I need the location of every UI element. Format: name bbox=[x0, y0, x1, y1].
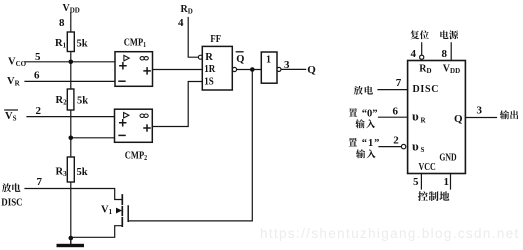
node Vco/R1/R2 junction bbox=[69, 60, 74, 65]
pin 4 number label (chip) bbox=[411, 48, 417, 60]
CMP1 amplifier triangle symbol bbox=[124, 55, 129, 61]
resistor R1 bbox=[67, 32, 74, 52]
wire VDD rail bbox=[70, 13, 72, 244]
svg-text:6: 6 bbox=[393, 106, 399, 118]
chip label DISC bbox=[413, 84, 440, 95]
svg-text:1: 1 bbox=[444, 176, 450, 188]
svg-text:5k: 5k bbox=[77, 96, 88, 107]
svg-text:7: 7 bbox=[396, 77, 402, 89]
pin 2 label bbox=[36, 105, 42, 117]
FF pin label R bbox=[205, 52, 213, 63]
svg-text:Q: Q bbox=[236, 54, 244, 65]
svg-text:υ: υ bbox=[412, 138, 419, 153]
svg-text:CMP2: CMP2 bbox=[125, 151, 147, 162]
resistor R1 labels bbox=[55, 38, 88, 50]
wire pin 6 (chip) bbox=[379, 116, 408, 118]
FF pin label 1S bbox=[204, 76, 214, 88]
comparator CMP2 box bbox=[115, 109, 153, 142]
wire Vco to CMP1 + input bbox=[25, 61, 115, 63]
svg-text:6: 6 bbox=[34, 69, 40, 81]
pin 5 number label (chip) bbox=[413, 176, 419, 188]
CMP2 infinity symbol bbox=[140, 114, 148, 117]
set-0 input label 输入 bbox=[355, 119, 375, 128]
svg-text:υ: υ bbox=[412, 109, 419, 124]
wire DISC pin7 to V1 drain bbox=[25, 189, 122, 200]
CMP1 output plus sign bbox=[144, 68, 150, 74]
chip label vS bbox=[412, 138, 425, 154]
wire R2-R3 node to CMP2 - input bbox=[71, 137, 115, 139]
svg-text:2: 2 bbox=[36, 105, 42, 117]
svg-text:8: 8 bbox=[442, 48, 448, 60]
CMP1 minus input sign bbox=[119, 80, 125, 82]
CMP2 amplifier triangle symbol bbox=[124, 113, 129, 119]
pin 3 label (left schematic) bbox=[284, 59, 290, 71]
svg-text:2: 2 bbox=[393, 135, 399, 147]
wire pin 5 (chip) bbox=[420, 174, 422, 190]
set-0 input label 置"0" bbox=[349, 108, 378, 119]
node R2/R3 junction bbox=[69, 136, 74, 141]
FF output Qbar label bbox=[236, 52, 244, 65]
transistor V1 channel segments bbox=[121, 195, 123, 226]
wire VR to CMP1 - input bbox=[25, 80, 115, 82]
buffer label 1 bbox=[266, 54, 271, 65]
output label 输出 bbox=[500, 110, 518, 119]
output label Q bbox=[307, 64, 316, 76]
svg-text:DISC: DISC bbox=[413, 84, 440, 95]
svg-text:Q: Q bbox=[307, 64, 316, 76]
flip-flop FF label bbox=[210, 35, 221, 46]
chip label vR bbox=[412, 109, 427, 125]
wire pin 4 (chip) bbox=[421, 43, 423, 55]
wire FF output to buffer bbox=[237, 69, 262, 71]
svg-text:7: 7 bbox=[37, 176, 43, 188]
wire pin 3 (chip) bbox=[465, 117, 496, 119]
DISC label (left) bbox=[1, 197, 22, 209]
input label Vs with overbar bbox=[5, 110, 18, 122]
input label Vco bbox=[8, 57, 27, 69]
discharge label 放电 (left) bbox=[2, 183, 21, 192]
CMP2 plus input sign bbox=[120, 120, 126, 126]
set-1 input label 输入 bbox=[356, 149, 376, 158]
555 chip block bbox=[408, 61, 466, 174]
transistor V1 source lead bbox=[71, 226, 122, 238]
wire pin 7 (chip) bbox=[378, 89, 408, 91]
svg-text:3: 3 bbox=[477, 105, 483, 117]
svg-text:4: 4 bbox=[178, 17, 184, 29]
svg-text:Q: Q bbox=[454, 113, 463, 125]
FF output inversion bubble bbox=[232, 67, 236, 71]
svg-text:GND: GND bbox=[439, 151, 457, 162]
CMP1 plus input sign bbox=[120, 63, 126, 69]
svg-text:8: 8 bbox=[59, 17, 65, 29]
pin 1 number label (chip) bbox=[444, 176, 450, 188]
svg-text:“0”: “0” bbox=[362, 109, 378, 120]
buffer output inversion bubble bbox=[277, 67, 281, 71]
transistor V1 body arrow bbox=[116, 208, 122, 214]
pin 8 number label (chip) bbox=[442, 48, 448, 60]
wire Vs to CMP2 + input bbox=[27, 116, 115, 118]
ground bbox=[70, 238, 72, 244]
resistor R3 labels bbox=[56, 166, 88, 178]
input label VR bbox=[7, 76, 21, 88]
chip label Q bbox=[454, 113, 463, 125]
wire RD to FF R input bbox=[188, 18, 198, 58]
FF pin label 1R bbox=[204, 63, 216, 75]
svg-text:1R: 1R bbox=[204, 63, 216, 75]
reset net RD label bbox=[181, 4, 193, 16]
comparator CMP1 box bbox=[115, 52, 153, 87]
pin 6 number label (chip) bbox=[393, 106, 399, 118]
pin 3 number label (chip) bbox=[477, 105, 483, 117]
pin 2 number label (chip) bbox=[393, 135, 399, 147]
svg-text:VCC: VCC bbox=[419, 162, 436, 173]
ground bar bbox=[57, 244, 85, 247]
transistor V1 label bbox=[101, 204, 113, 216]
svg-text:1: 1 bbox=[266, 54, 271, 65]
pin 2 inversion bubble (chip) bbox=[401, 144, 405, 148]
wire pin 2 (chip) bbox=[379, 146, 401, 148]
flip-flop FF box bbox=[202, 46, 232, 90]
svg-text:https://shentuzhigang.blog.csd: https://shentuzhigang.blog.csdn.net bbox=[260, 226, 520, 241]
svg-text:“1”: “1” bbox=[362, 138, 380, 149]
svg-text:CMP1: CMP1 bbox=[124, 38, 146, 49]
resistor R2 labels bbox=[56, 95, 89, 107]
control ground label 控制地 bbox=[418, 191, 449, 201]
wire CMP2 output to FF 1S bbox=[152, 82, 202, 127]
wire CMP1 output to FF 1R bbox=[153, 69, 203, 71]
reset label 复位 bbox=[410, 30, 428, 39]
pin 4 inversion bubble (chip) bbox=[420, 55, 424, 59]
resistor R3 bbox=[67, 157, 74, 182]
chip label VDD bbox=[443, 64, 460, 76]
chip label VCC bbox=[419, 162, 436, 173]
node Qbar junction bbox=[250, 67, 255, 72]
CMP1 infinity symbol bbox=[140, 57, 148, 60]
node ground junction bbox=[69, 236, 74, 241]
chip label RD bbox=[419, 64, 431, 76]
discharge label 放电 (chip) bbox=[354, 86, 373, 95]
svg-text:3: 3 bbox=[284, 59, 290, 71]
set-1 input label 置"1" bbox=[349, 138, 381, 149]
comparator CMP1 label bbox=[124, 38, 146, 49]
wire buffer output to Q bbox=[281, 68, 306, 70]
svg-text:5k: 5k bbox=[77, 167, 88, 178]
svg-text:5k: 5k bbox=[77, 38, 88, 49]
wire pin 1 (chip) bbox=[450, 174, 452, 190]
CMP2 minus input sign bbox=[119, 134, 125, 136]
svg-text:5: 5 bbox=[35, 51, 41, 63]
resistor R2 bbox=[67, 89, 74, 110]
pin 5 label bbox=[35, 51, 41, 63]
svg-text:5: 5 bbox=[413, 176, 419, 188]
pin 8 label (left schematic) bbox=[59, 17, 65, 29]
CMP2 output plus sign bbox=[144, 125, 150, 131]
pin 7 label bbox=[37, 176, 43, 188]
power net VDD label bbox=[63, 3, 80, 15]
transistor V1 gate bar bbox=[127, 206, 129, 221]
svg-text:R: R bbox=[205, 52, 213, 63]
svg-text:S: S bbox=[421, 146, 425, 154]
power label 电源 bbox=[440, 30, 458, 39]
svg-text:DISC: DISC bbox=[1, 197, 22, 209]
svg-text:4: 4 bbox=[411, 48, 417, 60]
comparator CMP2 label bbox=[125, 151, 147, 162]
svg-text:FF: FF bbox=[210, 35, 221, 46]
pin 4 label (left schematic) bbox=[178, 17, 184, 29]
output buffer box bbox=[261, 52, 277, 83]
wire pin 8 (chip) bbox=[450, 43, 452, 61]
wire Qbar to V1 gate bbox=[129, 71, 253, 221]
pin 6 label bbox=[34, 69, 40, 81]
FF R input inversion bubble bbox=[198, 55, 202, 59]
pin 7 number label (chip) bbox=[396, 77, 402, 89]
chip label GND bbox=[439, 151, 457, 162]
svg-text:1S: 1S bbox=[204, 76, 214, 88]
